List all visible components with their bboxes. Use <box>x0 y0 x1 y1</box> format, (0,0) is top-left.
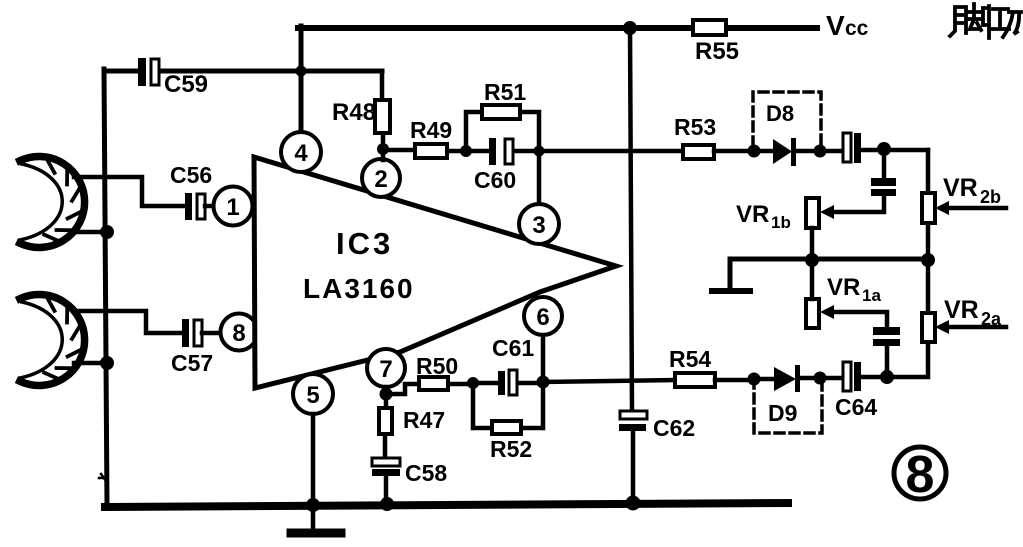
svg-text:7: 7 <box>379 356 392 383</box>
wire: head1 lower terminal <box>74 230 107 235</box>
svg-text:C58: C58 <box>405 460 447 486</box>
op-amp IC3 triangle <box>254 157 616 388</box>
node: R54 / D9 <box>748 373 761 386</box>
svg-text:R53: R53 <box>674 114 716 140</box>
svg-text:4: 4 <box>294 140 308 167</box>
capacitor C59 <box>138 58 146 86</box>
svg-text:IC3: IC3 <box>336 226 393 261</box>
svg-text:8: 8 <box>906 446 935 504</box>
wire: C56 to pin1 <box>205 204 214 209</box>
svg-text:2: 2 <box>374 166 387 193</box>
node: pin4 stem / C59 line <box>296 66 307 77</box>
svg-text:1: 1 <box>226 194 239 221</box>
capacitor C60 <box>466 149 539 154</box>
svg-text:2b: 2b <box>980 187 1001 207</box>
node: output lower <box>880 370 894 384</box>
node: VR1b / VR1a / mid line <box>805 253 819 267</box>
pin 2 <box>362 159 400 197</box>
pin 7 <box>367 349 405 387</box>
resistor R52 bypass loop <box>473 383 543 428</box>
svg-text:1b: 1b <box>771 213 791 232</box>
wire: upper signal line to R53 <box>539 149 683 154</box>
svg-text:R50: R50 <box>416 353 458 379</box>
pin 8 <box>221 314 258 351</box>
svg-text:C59: C59 <box>164 71 208 98</box>
svg-text:R47: R47 <box>403 407 445 433</box>
wire: C57 to pin8 <box>202 331 221 336</box>
pin 3 <box>519 204 559 244</box>
svg-text:1a: 1a <box>862 286 881 305</box>
wire: lower signal line to R54 <box>543 380 675 382</box>
dashed select box D9 <box>754 379 822 433</box>
svg-text:LA3160: LA3160 <box>303 273 415 304</box>
svg-text:VR: VR <box>944 296 979 324</box>
capacitor C64 <box>820 376 843 381</box>
wire: head2 lower terminal <box>74 361 107 366</box>
node: pin5 / rail <box>306 498 320 512</box>
svg-text:VR: VR <box>827 274 860 301</box>
tape head 2 <box>20 294 85 385</box>
svg-text:V: V <box>826 10 845 41</box>
svg-text:5: 5 <box>306 382 319 409</box>
wire: C59 line <box>104 69 382 74</box>
svg-text:R51: R51 <box>484 79 526 105</box>
node: R49 / R51 / C60 <box>460 145 472 157</box>
resistor R51 bypass loop <box>466 112 539 151</box>
wire: bottom ground rail <box>105 503 788 507</box>
node: pin2 / R48 / R49 <box>377 143 389 155</box>
tape head 1 <box>20 156 85 247</box>
resistor R48 with stem <box>382 71 383 160</box>
svg-text:8: 8 <box>232 320 245 347</box>
svg-text:VR: VR <box>736 201 769 228</box>
node: C61 / pin6 <box>537 376 550 389</box>
svg-text:C64: C64 <box>835 394 877 420</box>
wire: head1 upper terminal <box>74 177 186 206</box>
potentiometer VR2a <box>861 260 928 377</box>
resistor R55 <box>693 20 726 35</box>
ground (mid line) <box>712 288 750 294</box>
wire: Vcc top rail <box>298 25 817 31</box>
wire: pin4 stem from Vcc rail <box>299 26 304 134</box>
wire: pin3 stem <box>537 151 542 204</box>
diode D9 <box>754 377 774 382</box>
capacitor C58 <box>372 458 400 466</box>
node: output upper <box>877 142 891 156</box>
wire: head2 upper terminal <box>74 311 183 333</box>
potentiometer VR1a <box>820 305 834 319</box>
svg-text:C56: C56 <box>170 162 212 188</box>
svg-text:R54: R54 <box>669 346 711 372</box>
capacitor C57 <box>182 319 189 347</box>
svg-text:6: 6 <box>536 304 549 331</box>
potentiometer VR1b <box>820 205 834 219</box>
node: Vcc rail / C62 branch <box>623 21 637 35</box>
node: R50 / C61 / R52 <box>467 377 479 389</box>
node: D9 / C64 <box>814 372 827 385</box>
svg-text:R49: R49 <box>410 117 452 143</box>
svg-text:C61: C61 <box>492 335 534 361</box>
node: C58 / rail <box>380 497 394 511</box>
scan mark on left bus <box>99 474 106 481</box>
svg-text:2a: 2a <box>981 309 1002 329</box>
resistor R54 <box>675 373 715 387</box>
pin 6 with stem <box>524 297 562 335</box>
svg-text:R52: R52 <box>490 436 532 462</box>
svg-text:R55: R55 <box>695 38 739 65</box>
svg-text:C57: C57 <box>171 350 213 376</box>
capacitor upper-right <box>834 149 884 212</box>
coupling capacitor after D8 <box>820 149 843 154</box>
node: head1 lower / left bus <box>100 225 114 239</box>
svg-text:VR: VR <box>943 174 978 202</box>
pin 5 with stem and ground <box>293 374 333 414</box>
svg-text:D9: D9 <box>768 400 797 426</box>
svg-text:D8: D8 <box>766 101 794 126</box>
resistor R49 <box>383 150 466 151</box>
dashed select box D8 <box>753 92 821 146</box>
resistor R50 <box>386 384 473 394</box>
resistor R47 with stem <box>385 394 386 458</box>
wire: mid common line <box>730 259 928 290</box>
wire: left vertical bus <box>104 69 107 507</box>
diode D8 <box>754 149 773 154</box>
svg-text:R48: R48 <box>332 99 376 126</box>
node: pin7 / R50 / R47 <box>380 388 393 401</box>
node: R53 / D8 <box>748 145 761 158</box>
pin 4 <box>281 132 321 172</box>
capacitor C62 <box>620 411 647 419</box>
capacitor C61 <box>473 381 543 386</box>
capacitor lower-right <box>834 312 887 377</box>
wire: C62 branch vertical <box>630 28 633 503</box>
node: VR2 chain / mid line <box>921 253 935 267</box>
svg-text:C62: C62 <box>653 415 695 441</box>
ground (pin5) <box>291 529 341 538</box>
svg-text:3: 3 <box>532 212 545 239</box>
potentiometer VR2b <box>926 150 931 259</box>
node: C60 / R51 / pin3 <box>534 146 545 157</box>
resistor R53 <box>683 145 714 159</box>
svg-text:cc: cc <box>845 17 869 40</box>
pin 1 <box>214 187 253 226</box>
node: C62 / rail <box>626 496 641 511</box>
capacitor C56 <box>185 193 192 220</box>
node: head2 lower / left bus <box>100 356 114 370</box>
figure number 8 (circled) <box>894 447 946 499</box>
node: D8 / C63 <box>814 145 827 158</box>
svg-text:C60: C60 <box>474 167 516 193</box>
caption 脚功 (drawn strokes) <box>950 4 989 38</box>
